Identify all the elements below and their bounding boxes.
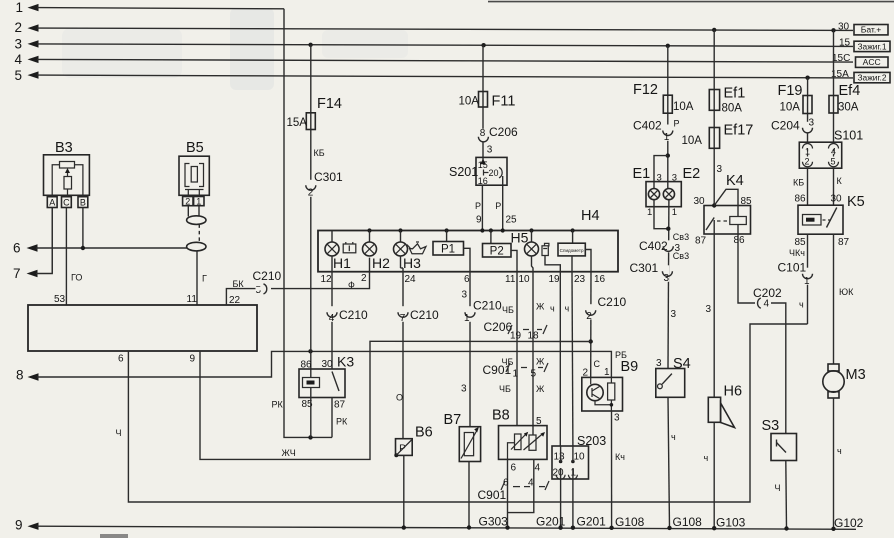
wire label 3 (706, 304, 712, 315)
switch S4 box (656, 369, 685, 398)
connector C210 pin 2 (586, 295, 627, 322)
switch S4 labels (656, 356, 691, 372)
svg-text:B3: B3 (55, 140, 73, 156)
svg-text:3: 3 (614, 413, 620, 424)
E1/E2 pin 3 labels (657, 173, 678, 184)
svg-text:ч: ч (837, 446, 842, 456)
fuse Ef17 (10A) (709, 128, 719, 149)
connector C901 pins 6/4 (478, 478, 550, 503)
wire color К (837, 176, 843, 186)
svg-text:86: 86 (734, 235, 746, 246)
terminal 15A label (831, 69, 849, 80)
svg-text:Ж: Ж (536, 357, 545, 367)
wire B3-A to line 7 (51, 208, 53, 274)
node 4 label (15, 52, 23, 67)
ECU pin 9 label (190, 354, 196, 365)
wire line 5 (Зажиг.2 15A) (28, 71, 854, 78)
svg-text:30: 30 (831, 194, 843, 205)
svg-text:9: 9 (190, 354, 196, 365)
lamp H5 (fuel) (525, 231, 539, 257)
sensor B8 body (499, 426, 548, 460)
fuse Ef17 rating 10A (682, 135, 703, 147)
wire E1 bottom to junction (654, 200, 668, 229)
terminal Зажиг.1 box (854, 41, 890, 51)
svg-text:1: 1 (16, 0, 24, 15)
wire label 3 (462, 290, 468, 301)
fuse F14 rating 15A (287, 117, 308, 129)
S101 contact 1-2 (803, 144, 813, 167)
svg-text:2: 2 (308, 188, 314, 199)
K4 external contact arm to coil feed (714, 189, 738, 216)
svg-text:БК: БК (233, 279, 245, 289)
wire B8 pin 4 -> C901-4 -> join pin 6 (508, 459, 534, 512)
K5 contact + dashed link (823, 208, 837, 228)
svg-text:3: 3 (15, 36, 23, 51)
svg-text:2: 2 (805, 157, 810, 167)
connector oval (lower, on line 6) (187, 242, 206, 251)
relay K3 box (299, 369, 345, 398)
wire H4-23 -> S203 pin 10 (ч) (571, 272, 574, 446)
svg-text:87: 87 (695, 236, 707, 247)
B8 pin 5 label (536, 416, 542, 427)
wire H4-16 -> C210-2 -> B9 pin 2 (С) (590, 272, 592, 378)
K4 internal contact + dashed actuator link (706, 218, 729, 231)
svg-text:3: 3 (664, 273, 670, 284)
B3 terminal C (62, 197, 72, 208)
svg-text:2: 2 (586, 311, 592, 322)
svg-text:КБ: КБ (314, 148, 325, 158)
junction dots on H4 top edge (367, 228, 574, 232)
fuse F11 label (492, 94, 516, 110)
svg-text:M3: M3 (846, 367, 866, 383)
wire color Ж (below C206) (536, 357, 545, 367)
svg-text:18: 18 (528, 331, 540, 342)
svg-text:H3: H3 (403, 255, 421, 271)
K4 pin 86 label (734, 235, 746, 246)
svg-text:K5: K5 (847, 194, 865, 210)
wire F12 column down to E1/E2 (667, 46, 669, 189)
wire B7 -> bus (468, 462, 470, 528)
sensor B7 label (444, 412, 462, 428)
svg-text:C206: C206 (489, 125, 518, 139)
svg-text:Ef4: Ef4 (839, 83, 861, 99)
wire color ЮК (839, 287, 854, 297)
junction: speed signal C / ЖЧ (589, 339, 593, 343)
terminal 15 label (839, 37, 851, 48)
fuse Ef4 label (839, 83, 861, 99)
motor M3 label (846, 367, 866, 383)
connector C402 pin 1 (633, 119, 673, 143)
wire B9 pin 3 -> G108 (Кч) (611, 411, 613, 528)
svg-text:ЖЧ: ЖЧ (282, 448, 296, 458)
svg-text:1: 1 (664, 132, 670, 143)
svg-text:F14: F14 (317, 96, 342, 112)
cluster H4 label (581, 208, 600, 224)
node 5 label (15, 68, 23, 83)
svg-text:16: 16 (478, 176, 488, 186)
node 3 label (15, 36, 23, 51)
wire M3 -> G102 (ч) (833, 398, 835, 529)
wire K5 pin 85 -> C101 -> join Ч net (807, 234, 809, 324)
ECU pin 6 label (118, 354, 124, 365)
svg-text:20: 20 (553, 468, 565, 479)
junction: F19 on line 5 (805, 76, 809, 80)
svg-text:15A: 15A (287, 117, 308, 129)
ground G108 (B9) (615, 515, 645, 529)
K4 coil (730, 217, 747, 225)
K3 pin 30 label (322, 359, 334, 370)
sensor B5 label (186, 140, 204, 156)
svg-text:ЧБ: ЧБ (502, 305, 514, 315)
sensor B5 body (179, 156, 209, 196)
svg-text:ACC: ACC (863, 57, 881, 67)
svg-text:3: 3 (809, 118, 815, 129)
junction: B9 ground G108 on bus (609, 526, 613, 530)
svg-text:C402: C402 (639, 239, 668, 253)
sensor B7 body (459, 427, 480, 462)
motor M3 symbol (823, 364, 844, 398)
wire color P (right) (495, 201, 501, 211)
svg-text:C210: C210 (410, 308, 439, 322)
lamp H1 label (333, 255, 351, 271)
svg-text:7: 7 (400, 313, 406, 324)
ECU (control unit) box (28, 305, 257, 351)
svg-text:A: A (49, 198, 55, 208)
S3 contact (777, 440, 787, 453)
connector C202 pin 4 (753, 286, 782, 310)
svg-text:5: 5 (15, 68, 23, 83)
B8 pin 4 label (535, 463, 541, 474)
junction: wire8 + F14/K3-86 (308, 349, 312, 353)
svg-text:5: 5 (256, 285, 262, 296)
wire S3 -> bus (Ч) (785, 461, 788, 529)
K4 pin 87 label (695, 236, 707, 247)
S201 internal pin 16 (478, 176, 488, 186)
svg-text:12: 12 (321, 274, 333, 285)
B8 pin 6 label (511, 463, 517, 474)
svg-text:11: 11 (505, 274, 516, 285)
svg-text:3: 3 (656, 358, 662, 369)
connector C204 pin 3 (771, 118, 815, 134)
svg-text:10A: 10A (459, 96, 480, 108)
svg-text:ч: ч (799, 300, 804, 310)
connector C101 pin 1 (778, 261, 813, 287)
node 2 label (15, 20, 23, 35)
connector S203 box (552, 446, 589, 479)
relay K3 label (337, 354, 354, 370)
svg-text:P: P (495, 201, 501, 211)
K3 pin 86 label (301, 360, 313, 371)
fuse F19 (803, 96, 812, 114)
sensor B3 label (55, 140, 73, 156)
svg-text:1: 1 (804, 276, 810, 287)
svg-text:10A: 10A (780, 102, 801, 114)
svg-text:20: 20 (489, 168, 499, 178)
horn H6 label (724, 384, 743, 400)
svg-text:B6: B6 (415, 425, 433, 441)
wire H4-6 (P1) -> C210-1 -> B7 (З) (469, 272, 471, 427)
wire S4 -> G108 (ч) (668, 397, 670, 528)
wire label 3 (B7) (461, 384, 467, 395)
sensor B6 label (415, 425, 433, 441)
svg-text:Ч: Ч (775, 483, 781, 493)
svg-text:10: 10 (519, 274, 531, 285)
wire line 9 / ground bus (28, 523, 857, 530)
svg-text:ч: ч (565, 304, 570, 314)
svg-text:ГО: ГО (71, 273, 82, 283)
svg-text:25: 25 (506, 215, 518, 226)
wire F19 -> C204 -> S101 pin 1 (807, 78, 809, 143)
K3 contact (332, 372, 339, 392)
svg-text:К: К (837, 176, 843, 186)
svg-text:ч: ч (671, 432, 676, 442)
svg-text:C210: C210 (598, 295, 627, 309)
wire color КБ (793, 178, 804, 188)
wire line 4 (ACC 15C) (28, 56, 854, 63)
svg-text:87: 87 (334, 400, 346, 411)
junction: F14 on line 3 (308, 43, 312, 47)
wire Ef1 column down to K4 pin 30 (713, 30, 715, 206)
E1/E2 pin 1 labels (647, 207, 677, 218)
wire H4-19 -> S203 pin 13 (ч) (559, 272, 561, 446)
terminal Бат.+ box (854, 25, 888, 35)
svg-text:3: 3 (487, 145, 493, 156)
K5 pin 87 label (838, 237, 850, 248)
svg-text:H4: H4 (581, 208, 600, 224)
wire label 3 (671, 309, 677, 320)
svg-text:53: 53 (54, 294, 66, 305)
junction: B3-B on line 6 (81, 246, 85, 250)
S203 pin 1 label (571, 468, 577, 479)
wire H4-10 (H5) -> C206-18 -> C901-5 -> B8 pin 5 (Ж) (532, 256, 534, 435)
svg-text:30: 30 (838, 22, 850, 33)
wire B5 terminals to connector oval 1 (188, 206, 199, 217)
lamp H2 label (372, 255, 390, 271)
svg-text:Р: Р (674, 119, 680, 129)
relay K5 label (847, 194, 865, 210)
wire color ЧБ (502, 305, 514, 315)
svg-text:H5: H5 (511, 230, 529, 246)
switch S101 box (799, 142, 841, 168)
ground G201 (pin 20) (536, 515, 566, 529)
svg-text:Ч: Ч (116, 428, 122, 438)
wire K3 pin 85 down to loop (310, 388, 312, 438)
wire ECU-6 -> Ч horizontal -> up to C101/K5-85 (128, 324, 807, 502)
junction: K4 pin 30 (712, 203, 716, 207)
svg-text:Ef17: Ef17 (724, 123, 754, 139)
svg-text:4: 4 (15, 52, 23, 67)
wire color Ж (below C901) (536, 384, 545, 394)
wire B3-B to line 6 (82, 208, 84, 249)
S203 pin 10 label (574, 452, 586, 463)
terminal 30 label (838, 22, 850, 33)
wire H4-11 (P2) -> C206-19 -> C901-1 -> B8 (ЧБ) (516, 272, 518, 426)
K5 coil (803, 215, 822, 226)
svg-text:C210: C210 (339, 308, 368, 322)
svg-text:2: 2 (361, 273, 367, 284)
fuse F12 rating 10A (673, 101, 694, 113)
S203 pin 13 label (554, 452, 566, 463)
B9 pin 1 label (604, 367, 610, 378)
ECU pin 22 label (229, 295, 241, 306)
wire S201 pin20 -> H4 pin 25 (P) (502, 176, 504, 231)
lamp H2 (363, 231, 377, 257)
switch S101 label (834, 129, 863, 143)
connector C402 pin 3 (639, 239, 681, 254)
fuse F12 label (633, 82, 658, 98)
wire color Ф (H2 pin 2 wire) (348, 280, 355, 290)
S203 pin 20 label (553, 468, 565, 479)
svg-text:ч: ч (550, 304, 555, 314)
sensor B3 body (44, 155, 90, 197)
svg-text:C204: C204 (771, 119, 800, 133)
junction: F12 on line 3 (666, 44, 670, 48)
svg-text:G102: G102 (834, 516, 864, 530)
node 7 label (13, 266, 21, 281)
fuse F19 label (778, 83, 803, 99)
sensor B8 label (492, 408, 510, 424)
junction: B7 ground on bus (467, 525, 471, 529)
wire ECU pin 22 -> БК -> C210-5 -> H2 pin 2 (226, 258, 369, 305)
wire label 3 (717, 164, 723, 175)
svg-text:C301: C301 (314, 170, 343, 184)
H4 pin 9 label (476, 215, 482, 226)
svg-text:8: 8 (480, 128, 486, 139)
lamp H5 label (511, 230, 529, 246)
wire color ч (550, 304, 555, 314)
svg-text:19: 19 (510, 331, 522, 342)
svg-text:РК: РК (272, 400, 284, 410)
svg-text:10: 10 (574, 452, 586, 463)
wire color РК (x=284 wire) (272, 400, 284, 410)
svg-text:E1: E1 (633, 166, 651, 182)
K5 pin 86 label (795, 194, 807, 205)
svg-text:B5: B5 (186, 140, 204, 156)
svg-text:Ж: Ж (536, 302, 545, 312)
wire H4-12 -> C210-4 -> K3 pin 30 (331, 256, 333, 369)
wire S203 pin 1 -> G201 (572, 446, 574, 528)
svg-text:C210: C210 (473, 299, 502, 313)
fuse Ef17 label (724, 123, 754, 139)
svg-text:Зажиг.1: Зажиг.1 (857, 41, 886, 51)
junction: E1/E2 bottoms (666, 227, 670, 231)
gauge P2 box (483, 231, 518, 272)
svg-text:G303: G303 (479, 514, 509, 528)
wire color БК (233, 279, 245, 289)
wire line 3 (Зажиг.1 15) (28, 40, 854, 47)
node 9 label (15, 518, 23, 533)
svg-text:15: 15 (839, 37, 851, 48)
switch S201 label (449, 165, 478, 179)
svg-text:1: 1 (513, 369, 519, 380)
K3 pin 85 label (302, 399, 314, 410)
relay K4 label (726, 173, 744, 189)
svg-text:C206: C206 (484, 320, 513, 334)
svg-text:10A: 10A (682, 135, 703, 147)
ECU pin 11 label (187, 294, 198, 305)
wire color Кч (615, 452, 625, 462)
svg-text:B9: B9 (621, 359, 639, 375)
svg-text:8: 8 (16, 368, 24, 383)
svg-text:H2: H2 (372, 255, 390, 271)
junction: M3 ground G102 on bus (831, 527, 835, 531)
S203 contacts (556, 460, 577, 480)
junction: S3 ground on bus (784, 526, 788, 530)
wire color P (left) (475, 201, 481, 211)
svg-text:3: 3 (461, 384, 467, 395)
svg-text:S101: S101 (834, 129, 863, 143)
wire color ГО (71, 273, 82, 283)
svg-text:C: C (63, 198, 70, 208)
svg-text:6: 6 (464, 274, 470, 285)
svg-text:16: 16 (594, 274, 606, 285)
svg-text:3: 3 (717, 164, 723, 175)
svg-text:P2: P2 (490, 246, 504, 258)
wire E2 bottom down to S4 (667, 200, 670, 369)
junction: S203 grounds on bus (558, 526, 575, 530)
wire color РК (pin 87 wire) (336, 417, 348, 427)
H4 pin 25 label (506, 215, 518, 226)
svg-text:7: 7 (13, 266, 21, 281)
wire color ЧБ (below C206) (502, 357, 514, 367)
svg-text:4: 4 (764, 299, 770, 310)
fuse Ef4 rating 30A (838, 102, 859, 114)
svg-text:5: 5 (831, 157, 836, 167)
junction: E1 branch (666, 153, 670, 157)
fuel icon lead to pin 19 (545, 256, 560, 272)
sensor B9 label (621, 359, 639, 375)
svg-text:Спидометр: Спидометр (560, 248, 584, 253)
junction: B8 ground G303 on bus (505, 525, 509, 529)
svg-text:1: 1 (464, 313, 470, 324)
svg-text:G103: G103 (716, 515, 746, 529)
svg-text:G108: G108 (615, 515, 645, 529)
svg-text:S3: S3 (762, 418, 780, 434)
svg-text:C210: C210 (253, 269, 282, 283)
svg-text:86: 86 (301, 360, 313, 371)
wire color Св3 (673, 251, 689, 261)
H4 pin 2 label (361, 273, 367, 284)
svg-text:24: 24 (405, 274, 417, 285)
lamp H1 (charge warning) (325, 231, 339, 257)
svg-text:6: 6 (118, 354, 124, 365)
svg-text:9: 9 (15, 518, 23, 533)
sensor B6 body (394, 439, 412, 458)
svg-text:H1: H1 (333, 255, 351, 271)
S4 contact (658, 374, 672, 389)
wire color ч (565, 304, 570, 314)
headlamp block box (646, 182, 681, 207)
svg-text:КБ: КБ (793, 178, 804, 188)
svg-text:G108: G108 (673, 515, 703, 529)
wire color ЧКч (789, 248, 805, 258)
wire B8 pin 6 -> C901-6 -> G303 (507, 459, 509, 527)
svg-text:B: B (80, 198, 86, 208)
lamp E1 (648, 189, 659, 200)
connector C301 pin 2 label (314, 170, 343, 184)
relay K4 box (704, 206, 751, 235)
connector C210 pin 4 (327, 306, 368, 324)
wire S203 pin 20 -> G201 (560, 446, 562, 528)
gauge P1 box (433, 231, 470, 272)
node 1 label (16, 0, 24, 15)
dashed link between ovals (198, 224, 200, 242)
svg-text:2: 2 (15, 20, 23, 35)
svg-text:C402: C402 (633, 119, 662, 133)
svg-text:K4: K4 (726, 173, 744, 189)
connector oval (upper) (187, 216, 206, 225)
junction: Ef4 on line 2 (831, 28, 835, 32)
